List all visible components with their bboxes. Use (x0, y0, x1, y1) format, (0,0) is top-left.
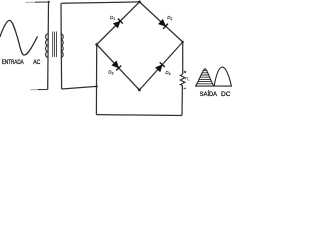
DC output baseline (195, 85, 232, 87)
svg-text:D1: D1 (110, 15, 115, 21)
wire right rail bottom (181, 86, 183, 116)
svg-text:AC: AC (33, 59, 40, 66)
wire primary bottom (faint left end) (31, 89, 39, 91)
node bottom corner (138, 89, 141, 92)
wire right rail top (bridge right corner to resistor) (182, 42, 184, 74)
junction blob top-left corner (48, 1, 50, 3)
node right corner (182, 41, 184, 43)
diode D4 (155, 62, 165, 72)
DC output waveform hump 1 (hatched) (196, 69, 214, 86)
svg-text:D3: D3 (108, 70, 113, 76)
wire top-left side (97, 2, 140, 45)
diode D3 (112, 61, 122, 71)
wire bottom-right side (139, 42, 182, 90)
svg-text:ENTRADA: ENTRADA (2, 59, 24, 66)
AC source sine wave (0, 20, 37, 55)
transformer T1 secondary winding (61, 34, 63, 58)
plus sign output (184, 71, 187, 74)
svg-text:D4: D4 (165, 70, 170, 76)
junction dot at secondary/bridge-left (95, 85, 97, 87)
svg-text:D2: D2 (167, 15, 172, 21)
diode D1 (113, 19, 123, 29)
wire top-right side (140, 2, 183, 42)
wire secondary bottom to bridge left rail (62, 86, 97, 89)
wire primary top (faint left end) (26, 1, 36, 3)
wire bridge left rail down (95, 45, 97, 115)
wire bottom-left side (97, 45, 140, 91)
svg-text:RL: RL (185, 76, 190, 82)
wire secondary top to bridge (61, 2, 139, 3)
transformer T1 primary winding (46, 34, 48, 58)
wire primary left rail (47, 2, 50, 90)
minus sign output (184, 87, 187, 89)
wire secondary right rail (60, 3, 63, 89)
wire bottom return (96, 114, 182, 117)
resistor R load zigzag (180, 74, 185, 86)
transformer core (53, 32, 57, 58)
diode D2 (158, 19, 168, 29)
svg-text:DC: DC (221, 91, 230, 98)
node top corner (138, 1, 141, 4)
DC output waveform hump 2 (214, 67, 231, 86)
node left corner (95, 43, 98, 46)
svg-text:SAÍDA: SAÍDA (200, 89, 218, 98)
